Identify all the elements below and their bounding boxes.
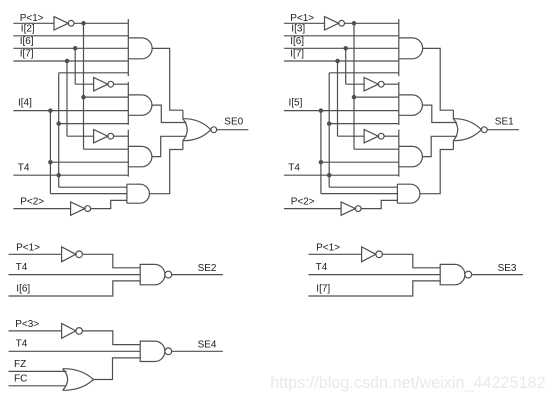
wire P<2> SE0 (13, 208, 70, 210)
wire P<1>' to AND3 SE1 (354, 148, 399, 150)
NOR gate NOR SE0 (183, 119, 187, 141)
wire I[7] to INV3 SE1 (338, 135, 365, 137)
svg-text:I[7]: I[7] (20, 49, 34, 60)
inverter INV2 SE1 (I[6]) (364, 78, 378, 91)
wire vertical I[6] branch SE0 (74, 48, 76, 84)
svg-text:P<3>: P<3> (15, 319, 39, 330)
svg-text:I[4]: I[4] (18, 98, 32, 109)
node I[4] junction SE0 (48, 108, 53, 113)
svg-text:I[6]: I[6] (290, 36, 304, 47)
node P<1>' to AND2 junction SE0 (81, 95, 86, 100)
svg-text:SE1: SE1 (495, 117, 514, 128)
svg-text:P<1>: P<1> (16, 243, 40, 254)
wire vertical I[4] bus SE0 (49, 111, 51, 194)
wire vertical T4 bus SE0 (58, 73, 60, 187)
svg-text:SE2: SE2 (198, 263, 217, 274)
svg-text:P<2>: P<2> (20, 197, 44, 208)
node T4 junction SE0 (56, 173, 61, 178)
wire INV2 out to AND2 SE1 (384, 83, 399, 85)
wire I[7] SE0 (13, 60, 128, 62)
wire I[6] to INV2 SE0 (75, 83, 93, 85)
inverter INV4 SE1 (P<2>) (341, 202, 355, 215)
wire OR out to NAND SE4 (94, 358, 141, 380)
wire AND3 out to NOR SE0 (152, 136, 187, 156)
wire I[6] SE2 (9, 281, 141, 296)
svg-text:FC: FC (14, 374, 27, 385)
wire I[4] to AND4 SE0 (50, 193, 127, 195)
svg-text:I[2]: I[2] (21, 24, 35, 35)
wire P<1> SE3 (309, 253, 362, 255)
node T4 to AND2 junction SE1 (327, 121, 332, 126)
node P<1>' to AND2 junction SE1 (352, 95, 357, 100)
wire output SE4 (172, 350, 223, 352)
AND gate AND3 SE0 (128, 146, 152, 166)
svg-text:https://blog.csdn.net/weixin_4: https://blog.csdn.net/weixin_44225182 (270, 374, 545, 392)
inverter INV2 SE0 (I[6]) (94, 78, 108, 91)
wire FC SE4 (9, 385, 67, 387)
wire I[2] SE0 (13, 35, 128, 37)
wire INV3 out to AND3 SE0 (114, 135, 129, 137)
AND gate AND1 SE1 (399, 38, 423, 59)
wire vertical P<1>' bus SE1 (353, 23, 355, 149)
wire vertical I[7] branch SE1 (337, 61, 339, 136)
wire P<1>' to AND3 SE0 (84, 148, 129, 150)
wire INV1 out to AND1 SE1 (345, 22, 399, 24)
wire I[7] SE1 (284, 60, 399, 62)
node I[6] junction SE1 (343, 46, 348, 51)
node I[6] junction SE0 (73, 46, 78, 51)
wire AND4 out to NOR SE0 (149, 150, 183, 194)
wire P<1> SE2 (9, 253, 62, 255)
wire output SE1 (487, 129, 519, 131)
svg-text:P<1>: P<1> (316, 243, 340, 254)
wire AND2 out to NOR SE0 (152, 105, 187, 122)
wire INV out to NAND SE4 (82, 331, 140, 345)
node I[7] junction SE0 (65, 59, 70, 64)
inverter INV SE3 (P<1>) (362, 247, 376, 262)
node I[5] junction SE1 (319, 108, 324, 113)
wire T4 SE3 (309, 274, 441, 276)
wire T4 to AND4 SE1 (329, 186, 397, 188)
svg-text:T4: T4 (316, 262, 328, 273)
OR gate U-OR SE4 (FZ+FC) (63, 369, 68, 391)
inverter INV3 SE1 (I[7]) (364, 130, 378, 143)
svg-text:FZ: FZ (14, 359, 26, 370)
wire output SE0 (217, 129, 249, 131)
wire INV1 out to AND1 SE0 (74, 22, 128, 24)
wire vertical T4 bus SE1 (328, 73, 330, 187)
wire INV3 out to AND3 SE1 (384, 135, 399, 137)
wire I[6] to INV2 SE1 (346, 83, 364, 85)
NAND gate NAND SE4 (140, 341, 165, 361)
node P<1>' junction SE1 (352, 21, 357, 26)
wire AND3 out to NOR SE1 (422, 136, 457, 156)
AND gate AND3 SE1 (399, 146, 423, 166)
inverter INV SE4 (P<3>) (62, 324, 76, 339)
AND gate AND1 SE0 (128, 38, 152, 59)
wire vertical I[6] branch SE1 (345, 48, 347, 84)
wire vertical I[7] branch SE0 (66, 61, 68, 136)
wire T4 SE0 (13, 174, 128, 176)
inverter INV1 SE1 (P<1>) (325, 17, 339, 30)
wire AND2 out to NOR SE1 (422, 105, 457, 122)
wire INV4 out to AND4 SE1 (361, 200, 397, 208)
svg-text:T4: T4 (288, 163, 300, 174)
wire T4 to AND4 SE0 (59, 186, 127, 188)
wire T4 to AND2 SE1 (329, 123, 399, 125)
svg-text:I[7]: I[7] (316, 284, 330, 295)
wire vertical I[5] bus SE1 (320, 111, 322, 194)
svg-text:I[7]: I[7] (290, 49, 304, 60)
wire T4 to AND1 SE1 (329, 72, 399, 74)
svg-text:I[5]: I[5] (289, 98, 303, 109)
wire T4 to AND1 SE0 (59, 72, 129, 74)
wire vertical P<1>' bus SE0 (83, 23, 85, 149)
svg-text:I[6]: I[6] (20, 36, 34, 47)
svg-text:I[6]: I[6] (16, 284, 30, 295)
wire P<1> SE0 (13, 22, 54, 24)
wire I[7] to INV3 SE0 (67, 135, 94, 137)
NAND gate NAND SE3 (440, 264, 465, 284)
svg-text:I[3]: I[3] (291, 24, 305, 35)
node I[7] junction SE1 (335, 59, 340, 64)
wire I[4] SE0 (13, 110, 128, 112)
node I[4] to AND3 junction SE0 (48, 160, 53, 165)
wire T4 SE1 (284, 174, 399, 176)
wire I[3] SE1 (284, 35, 399, 37)
wire I[6] SE0 (13, 47, 128, 49)
AND gate AND4 SE1 (397, 184, 420, 203)
wire FZ SE4 (9, 370, 67, 372)
wire P<1> SE1 (284, 22, 325, 24)
wire P<3> SE4 (9, 330, 62, 332)
AND gate AND4 SE0 (127, 184, 150, 203)
wire I[4] to AND3 SE0 (50, 161, 128, 163)
wire AND4 out to NOR SE1 (420, 150, 454, 194)
svg-text:T4: T4 (18, 163, 30, 174)
node T4 to AND2 junction SE0 (56, 121, 61, 126)
wire P<1>' to AND2 SE0 (84, 96, 129, 98)
wire INV4 out to AND4 SE0 (91, 200, 127, 208)
wire INV2 out to AND2 SE0 (114, 83, 129, 85)
inverter INV3 SE0 (I[7]) (94, 130, 108, 143)
wire I[5] to AND4 SE1 (321, 193, 398, 195)
wire T4 to AND2 SE0 (59, 123, 129, 125)
wire I[5] to AND3 SE1 (321, 161, 399, 163)
wire AND1 out to NOR SE1 (423, 48, 454, 110)
wire T4 SE4 (9, 350, 141, 352)
svg-text:SE0: SE0 (224, 117, 243, 128)
node P<1>' junction SE0 (81, 21, 86, 26)
wire I[6] SE1 (284, 47, 399, 49)
svg-text:T4: T4 (16, 262, 28, 273)
inverter INV4 SE0 (P<2>) (71, 202, 85, 215)
NAND gate NAND SE2 (140, 264, 165, 284)
AND gate AND2 SE0 (128, 95, 152, 115)
wire INV out to NAND SE3 (382, 254, 440, 267)
svg-text:SE3: SE3 (498, 263, 517, 274)
wire output SE3 (472, 274, 523, 276)
AND gate AND2 SE1 (399, 95, 423, 115)
wire P<2> SE1 (284, 208, 341, 210)
wire INV out to NAND SE2 (82, 254, 140, 267)
node I[5] to AND3 junction SE1 (319, 160, 324, 165)
wire output SE2 (172, 274, 223, 276)
svg-text:P<2>: P<2> (291, 197, 315, 208)
svg-text:T4: T4 (16, 339, 28, 350)
wire I[5] SE1 (284, 110, 399, 112)
inverter INV SE2 (P<1>) (62, 247, 76, 262)
svg-text:SE4: SE4 (198, 340, 217, 351)
wire I[7] SE3 (309, 281, 441, 296)
wire AND1 out to NOR SE0 (152, 48, 183, 110)
wire T4 SE2 (9, 274, 141, 276)
node T4 junction SE1 (327, 173, 332, 178)
wire P<1>' to AND2 SE1 (354, 96, 399, 98)
NOR gate NOR SE1 (453, 119, 457, 141)
inverter INV1 SE0 (P<1>) (54, 17, 68, 30)
